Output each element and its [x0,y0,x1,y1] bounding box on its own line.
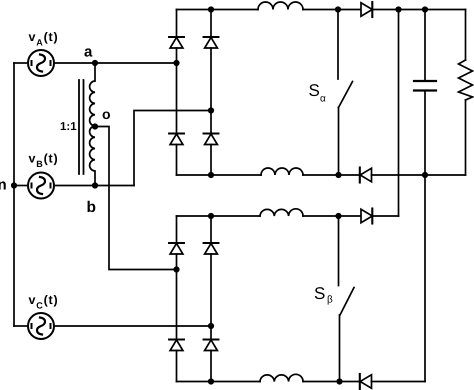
source vC [28,313,54,339]
diode D1 (upper bridge top-left) [169,36,184,38]
wire upper bridge right leg top [210,10,212,38]
svg-text:a: a [84,44,93,61]
inductor L2a (y=175 rail) [261,168,303,175]
wire bottom rail mid [303,381,360,383]
diode D12 (bottom rail, left-pointing) [359,374,361,389]
wire vA left [14,62,28,64]
svg-text:vC(t): vC(t) [29,293,59,310]
wire mid rail [303,215,361,217]
diode D6 (mid rail y=175, left-pointing) [359,168,361,183]
wire vA to node a to bridge [54,62,177,64]
node bottom rail right leg [208,378,214,384]
svg-text:S: S [314,284,325,303]
wire lower bridge left leg top [176,216,178,243]
diode D3 (upper bridge top-right) [204,36,219,38]
wire lower bridge bottom rail [177,381,261,383]
node S-alpha bottom [335,172,341,178]
svg-text:n: n [0,177,7,194]
inductor L3 (bottom, y=381.5) [260,374,303,381]
wire upper bridge bottom rail [177,174,262,176]
wire vC left [14,325,28,327]
diode D7 (lower bridge top-left) [169,242,184,244]
transformer core [79,80,84,174]
svg-text:vA(t): vA(t) [29,30,59,47]
inductor L1 (top) [258,2,303,9]
node mid rail / cap bottom [422,172,428,178]
label vC(t) [29,293,59,310]
diode D9 (lower bridge top-right) [204,242,219,244]
inductor L2 (mid, y=216) [260,209,303,216]
wire cap rail down to bottom row [424,175,426,382]
diode D5 (top rail, right-pointing) [361,3,372,16]
source vA [28,50,54,76]
node a-leg junction [173,60,179,66]
node vC input [208,323,214,329]
svg-text:S: S [309,81,320,100]
label vB(t) [29,152,59,169]
svg-text:o: o [102,106,111,122]
node S-beta bottom [336,378,342,384]
wire upper bridge top rail left [177,9,259,11]
wire lower bridge right leg top [210,216,212,243]
wire left rail n [13,63,15,326]
diode D2 (upper bridge bottom-left) [169,132,184,134]
svg-text:b: b [87,199,96,216]
diode D10 (lower bridge bottom-right) [204,338,219,340]
node b [92,182,98,188]
svg-text:vB(t): vB(t) [29,152,59,169]
node n [11,182,17,188]
svg-text:1:1: 1:1 [60,121,77,133]
wire right riser (top rail to lower bridge out) [398,10,400,217]
wire o tap to lower bridge [95,127,177,270]
wire vB left [14,185,28,187]
node bottom rail right leg [208,172,214,178]
node S-alpha top [335,6,341,12]
diode D11 (y=216 rail, right-pointing) [361,209,372,222]
capacitor C [424,10,426,82]
wire b riser to bridge input [134,111,211,186]
node S-beta top [335,213,341,219]
switch S-beta [338,216,340,286]
wire top rail mid [303,9,361,11]
label 1:1 [60,121,77,133]
svg-text:α: α [320,94,326,105]
node lower top rail right leg [208,213,214,219]
diode D4 (upper bridge bottom-right) [204,132,219,134]
label vA(t) [29,30,59,47]
diode D8 (lower bridge bottom-left) [169,338,184,340]
node top rail / cap branch [422,6,428,12]
resistor R [465,10,467,61]
source vB [28,173,54,199]
wire upper bridge left leg top [176,10,178,38]
switch S-alpha [337,10,339,80]
node o tap [92,123,98,129]
transformer winding [90,63,95,186]
node top rail / right riser [395,6,401,12]
wire lower bridge top rail [177,215,261,217]
node bridge right input [208,107,214,113]
node o input [173,266,179,272]
node top rail right leg [208,6,214,12]
wire vC to lower bridge [54,325,211,327]
svg-text:β: β [327,295,333,306]
node a [92,60,98,66]
wire vB to b to corner [54,185,134,187]
